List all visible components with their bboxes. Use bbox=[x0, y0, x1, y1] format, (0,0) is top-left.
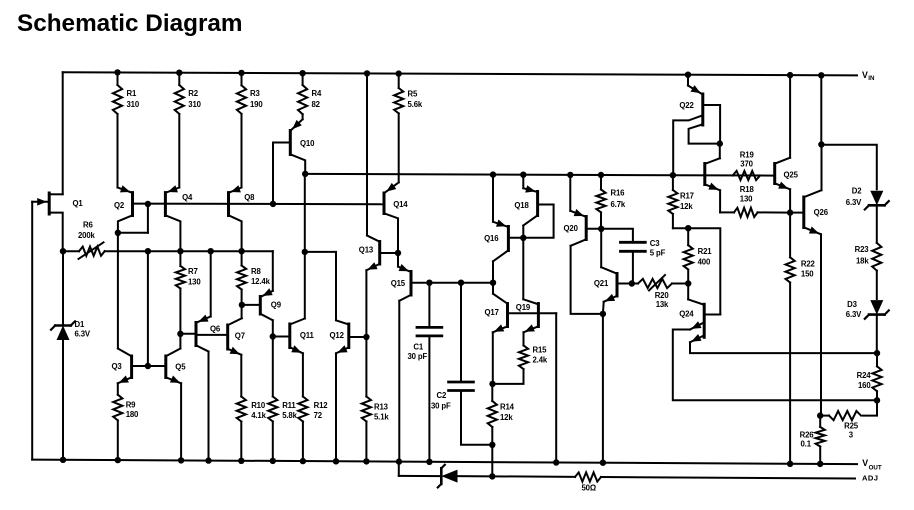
svg-text:R5: R5 bbox=[408, 89, 418, 98]
svg-text:ADJ: ADJ bbox=[862, 474, 878, 483]
svg-text:R14: R14 bbox=[500, 402, 515, 411]
svg-text:D3: D3 bbox=[847, 300, 857, 309]
svg-text:C2: C2 bbox=[437, 391, 447, 400]
svg-text:V: V bbox=[862, 458, 868, 468]
svg-text:30 pF: 30 pF bbox=[431, 401, 451, 410]
svg-text:12.4k: 12.4k bbox=[251, 277, 271, 286]
svg-text:5.8k: 5.8k bbox=[282, 411, 297, 420]
svg-text:R3: R3 bbox=[250, 89, 260, 98]
svg-text:R1: R1 bbox=[127, 89, 137, 98]
svg-text:Q6: Q6 bbox=[210, 325, 221, 334]
svg-text:D2: D2 bbox=[852, 186, 862, 195]
svg-text:Q25: Q25 bbox=[784, 170, 799, 179]
svg-text:13k: 13k bbox=[656, 300, 669, 309]
svg-text:Q5: Q5 bbox=[175, 362, 186, 371]
svg-text:Q17: Q17 bbox=[485, 308, 499, 317]
svg-text:R26: R26 bbox=[800, 430, 815, 439]
svg-text:370: 370 bbox=[740, 160, 753, 169]
svg-text:Schematic Diagram: Schematic Diagram bbox=[17, 10, 243, 37]
svg-text:18k: 18k bbox=[856, 256, 869, 265]
svg-text:130: 130 bbox=[740, 195, 753, 204]
svg-text:5.6k: 5.6k bbox=[408, 100, 423, 109]
svg-text:12k: 12k bbox=[680, 202, 693, 211]
svg-text:R4: R4 bbox=[312, 89, 322, 98]
svg-text:R18: R18 bbox=[740, 185, 755, 194]
svg-text:Q8: Q8 bbox=[244, 193, 255, 202]
svg-text:C1: C1 bbox=[413, 342, 423, 351]
svg-text:Q7: Q7 bbox=[235, 331, 245, 340]
svg-text:190: 190 bbox=[250, 100, 263, 109]
svg-text:R17: R17 bbox=[680, 191, 694, 200]
svg-text:Q14: Q14 bbox=[393, 200, 408, 209]
svg-text:5 pF: 5 pF bbox=[650, 248, 666, 257]
svg-text:R11: R11 bbox=[282, 401, 296, 410]
svg-text:R8: R8 bbox=[251, 267, 261, 276]
svg-text:0.1: 0.1 bbox=[801, 439, 812, 448]
svg-text:Q21: Q21 bbox=[594, 279, 609, 288]
svg-text:OUT: OUT bbox=[869, 465, 882, 472]
svg-text:R21: R21 bbox=[698, 247, 713, 256]
svg-text:Q26: Q26 bbox=[814, 208, 829, 217]
svg-text:180: 180 bbox=[126, 410, 139, 419]
svg-text:5.1k: 5.1k bbox=[374, 412, 389, 421]
svg-text:160: 160 bbox=[858, 381, 871, 390]
svg-text:6.3V: 6.3V bbox=[846, 310, 862, 319]
svg-text:Q13: Q13 bbox=[359, 245, 374, 254]
svg-text:R20: R20 bbox=[655, 291, 670, 300]
svg-text:V: V bbox=[862, 70, 868, 80]
svg-text:12k: 12k bbox=[500, 413, 513, 422]
svg-text:2.4k: 2.4k bbox=[533, 355, 548, 364]
svg-text:R22: R22 bbox=[801, 259, 816, 268]
svg-text:Q22: Q22 bbox=[679, 101, 694, 110]
svg-text:R10: R10 bbox=[251, 401, 266, 410]
svg-text:50Ω: 50Ω bbox=[582, 484, 596, 493]
svg-text:R9: R9 bbox=[126, 400, 136, 409]
svg-text:6.3V: 6.3V bbox=[846, 198, 862, 207]
svg-text:400: 400 bbox=[698, 257, 711, 266]
svg-text:82: 82 bbox=[312, 100, 321, 109]
svg-text:R24: R24 bbox=[857, 371, 872, 380]
svg-text:310: 310 bbox=[188, 100, 201, 109]
svg-text:R23: R23 bbox=[855, 245, 870, 254]
svg-text:Q10: Q10 bbox=[300, 139, 315, 148]
svg-text:Q11: Q11 bbox=[300, 331, 315, 340]
svg-text:6.3V: 6.3V bbox=[75, 329, 91, 338]
svg-text:Q9: Q9 bbox=[271, 301, 282, 310]
svg-text:Q4: Q4 bbox=[182, 193, 193, 202]
svg-text:30 pF: 30 pF bbox=[408, 352, 428, 361]
svg-text:130: 130 bbox=[188, 277, 201, 286]
svg-text:Q24: Q24 bbox=[679, 309, 694, 318]
svg-text:Q12: Q12 bbox=[330, 331, 345, 340]
svg-text:R12: R12 bbox=[314, 401, 329, 410]
svg-text:150: 150 bbox=[801, 269, 814, 278]
svg-text:72: 72 bbox=[314, 411, 323, 420]
svg-text:4.1k: 4.1k bbox=[251, 411, 266, 420]
svg-text:R2: R2 bbox=[188, 89, 198, 98]
svg-text:Q20: Q20 bbox=[564, 224, 579, 233]
svg-text:R19: R19 bbox=[740, 150, 755, 159]
svg-text:Q18: Q18 bbox=[514, 201, 529, 210]
svg-text:R15: R15 bbox=[533, 345, 548, 354]
svg-text:R13: R13 bbox=[374, 402, 389, 411]
svg-text:Q1: Q1 bbox=[73, 199, 84, 208]
svg-text:Q2: Q2 bbox=[114, 201, 125, 210]
svg-text:R16: R16 bbox=[611, 189, 626, 198]
svg-text:IN: IN bbox=[868, 75, 875, 82]
svg-text:R7: R7 bbox=[188, 267, 198, 276]
svg-text:R6: R6 bbox=[83, 220, 93, 229]
svg-text:Q15: Q15 bbox=[391, 279, 406, 288]
svg-text:200k: 200k bbox=[78, 231, 96, 240]
svg-text:6.7k: 6.7k bbox=[611, 200, 626, 209]
svg-text:Q19: Q19 bbox=[516, 303, 531, 312]
svg-text:R25: R25 bbox=[844, 421, 859, 430]
svg-text:Q3: Q3 bbox=[112, 362, 123, 371]
svg-text:310: 310 bbox=[127, 100, 140, 109]
svg-text:D1: D1 bbox=[75, 320, 85, 329]
svg-text:Q16: Q16 bbox=[484, 234, 499, 243]
svg-text:C3: C3 bbox=[650, 239, 660, 248]
